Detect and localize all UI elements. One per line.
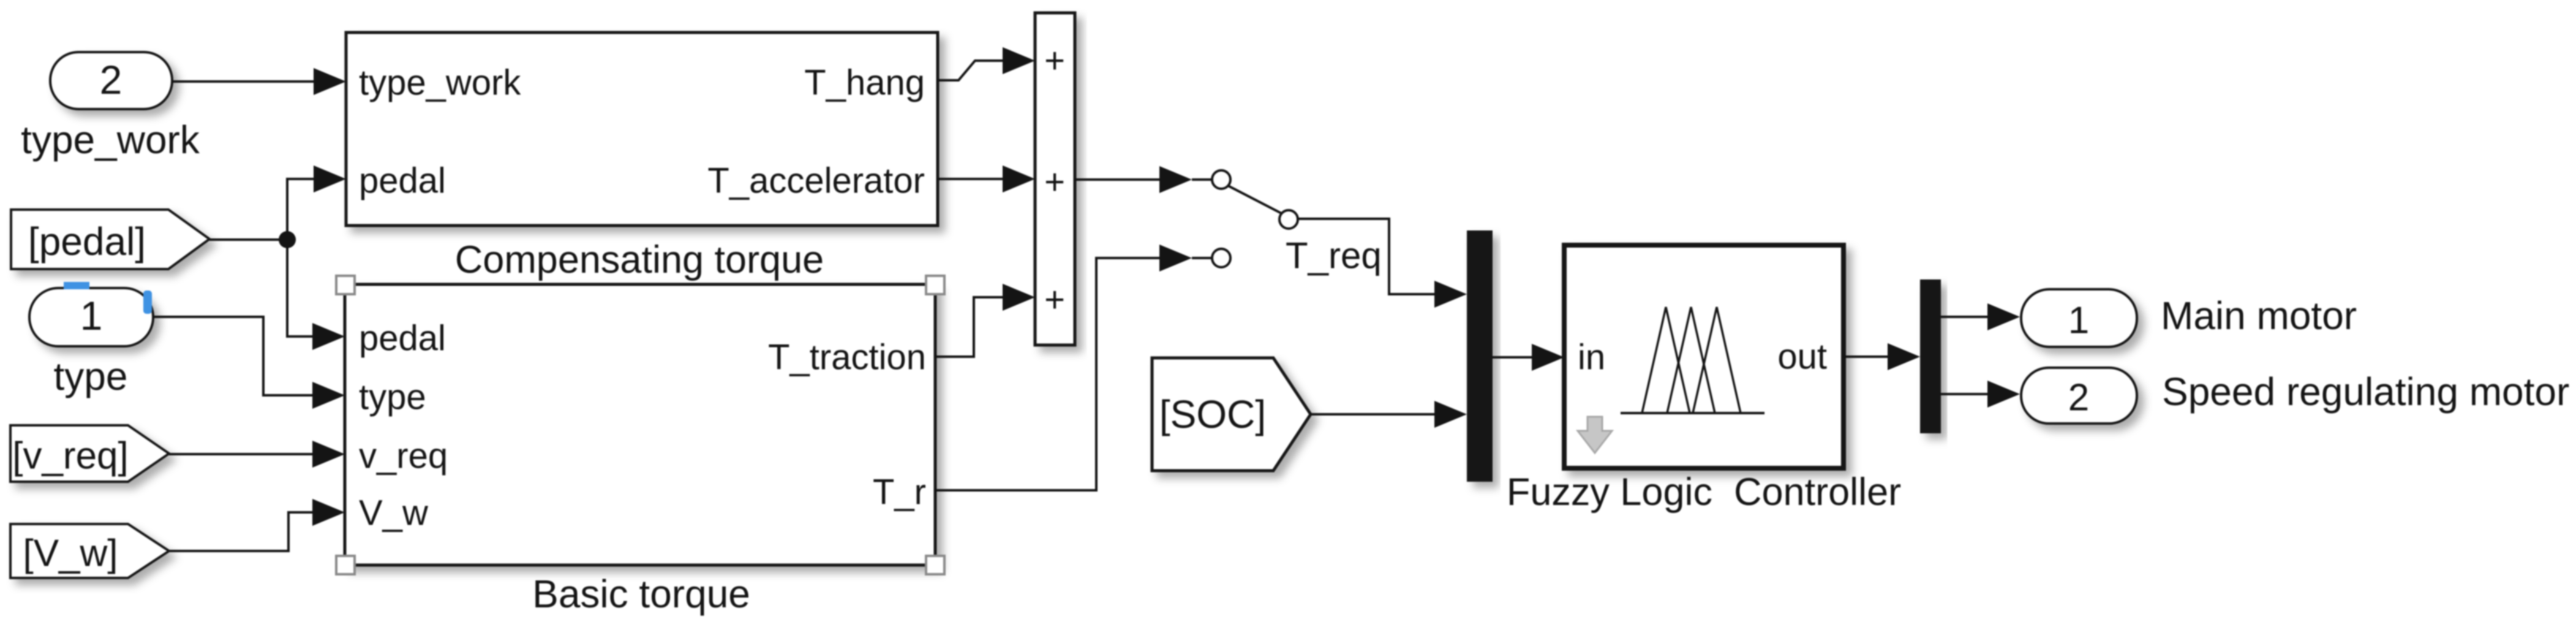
svg-text:Basic torque: Basic torque xyxy=(532,572,750,616)
svg-text:V_w: V_w xyxy=(359,493,429,533)
junction node pedal xyxy=(279,231,296,248)
switch upper contact xyxy=(1192,170,1230,189)
block Fuzzy Logic Controller xyxy=(1564,245,1843,468)
from tag [V_w] xyxy=(10,524,169,578)
wire SOC tag to mux input 2 xyxy=(1311,401,1467,428)
label Compensating torque xyxy=(455,238,824,281)
svg-text:pedal: pedal xyxy=(359,161,446,201)
wire T_accelerator to sum input 2 xyxy=(938,165,1035,192)
svg-text:Main motor: Main motor xyxy=(2161,294,2357,338)
demux xyxy=(1920,279,1941,433)
svg-text:Fuzzy Logic Controller: Fuzzy Logic Controller xyxy=(1507,471,1901,514)
blue selection mark top-left of inport 1 xyxy=(64,282,89,289)
selection handle top-right of Basic torque xyxy=(926,276,944,294)
wire junction to basic pedal port xyxy=(287,240,345,350)
subsystem Compensating torque xyxy=(346,32,938,226)
wire demux to outport 1 xyxy=(1941,303,2020,330)
wire T_hang to sum input 1 xyxy=(938,47,1035,80)
gray drop arrow icon xyxy=(1578,417,1612,453)
svg-text:T_req: T_req xyxy=(1286,235,1382,276)
svg-text:T_r: T_r xyxy=(873,473,926,512)
selection handle bottom-right of Basic torque xyxy=(926,556,944,574)
blue selection mark top-right of inport 1 xyxy=(143,291,152,314)
wire demux to outport 2 xyxy=(1941,381,2020,408)
svg-text:type_work: type_work xyxy=(359,63,521,103)
svg-text:Compensating torque: Compensating torque xyxy=(455,238,824,281)
wire mux to fuzzy in xyxy=(1493,344,1564,371)
inport 1 (type) xyxy=(29,288,153,346)
wire T_r to switch lower input xyxy=(935,245,1192,490)
svg-text:out: out xyxy=(1777,337,1827,377)
svg-text:v_req: v_req xyxy=(359,436,448,476)
svg-text:+: + xyxy=(1044,41,1065,81)
svg-text:T_hang: T_hang xyxy=(804,63,925,103)
goto tag [pedal] xyxy=(11,210,209,269)
svg-text:type: type xyxy=(54,354,128,398)
wire fuzzy out to demux xyxy=(1843,343,1920,370)
svg-text:1: 1 xyxy=(2068,300,2089,342)
sum block xyxy=(1035,13,1075,345)
wire junction to compensating pedal port xyxy=(287,165,346,240)
svg-text:1: 1 xyxy=(80,293,103,338)
svg-text:[SOC]: [SOC] xyxy=(1159,392,1266,436)
membership function icon xyxy=(1621,307,1764,413)
wire inport1 to basic type port xyxy=(153,317,345,409)
wire sum output to switch upper input xyxy=(1075,166,1192,193)
svg-text:+: + xyxy=(1044,280,1065,320)
label Main motor xyxy=(2161,294,2357,338)
svg-text:in: in xyxy=(1578,338,1605,378)
label Speed regulating motor xyxy=(2162,370,2569,414)
wire switch output T_req to mux input 1 xyxy=(1298,219,1467,308)
outport 1 xyxy=(2021,289,2137,347)
svg-text:+: + xyxy=(1044,162,1065,202)
label T_req xyxy=(1286,235,1382,276)
from tag [SOC] xyxy=(1152,358,1311,471)
svg-text:T_accelerator: T_accelerator xyxy=(707,161,925,201)
label type xyxy=(54,354,128,398)
svg-text:Speed regulating motor: Speed regulating motor xyxy=(2162,370,2569,414)
svg-text:type: type xyxy=(359,378,426,417)
mux xyxy=(1467,230,1493,482)
from tag [v_req] xyxy=(10,425,169,482)
switch common contact xyxy=(1279,210,1298,229)
label type_work xyxy=(21,118,200,162)
wire v_req tag to basic v_req port xyxy=(169,441,345,468)
inport 2 (type_work) xyxy=(50,52,172,109)
switch lower contact xyxy=(1192,249,1230,267)
outport 2 xyxy=(2021,368,2137,423)
selection handle top-left of Basic torque xyxy=(336,276,355,294)
label Fuzzy Logic Controller xyxy=(1507,471,1901,514)
svg-text:2: 2 xyxy=(2068,377,2089,419)
subsystem Basic torque xyxy=(345,284,935,565)
label Basic torque xyxy=(532,572,750,616)
wire V_w tag to basic V_w port xyxy=(169,499,345,551)
svg-text:[pedal]: [pedal] xyxy=(28,219,146,264)
svg-text:type_work: type_work xyxy=(21,118,200,162)
wire pedal tag to junction xyxy=(209,238,287,241)
svg-text:pedal: pedal xyxy=(359,319,446,359)
svg-text:[v_req]: [v_req] xyxy=(12,435,129,477)
svg-text:[V_w]: [V_w] xyxy=(23,533,118,575)
wire T_traction to sum input 3 xyxy=(935,284,1035,357)
switch lever xyxy=(1228,186,1282,214)
svg-text:2: 2 xyxy=(100,57,122,102)
wire inport2 to type_work port xyxy=(173,68,346,95)
svg-text:T_traction: T_traction xyxy=(768,338,926,378)
selection handle bottom-left of Basic torque xyxy=(336,556,355,574)
